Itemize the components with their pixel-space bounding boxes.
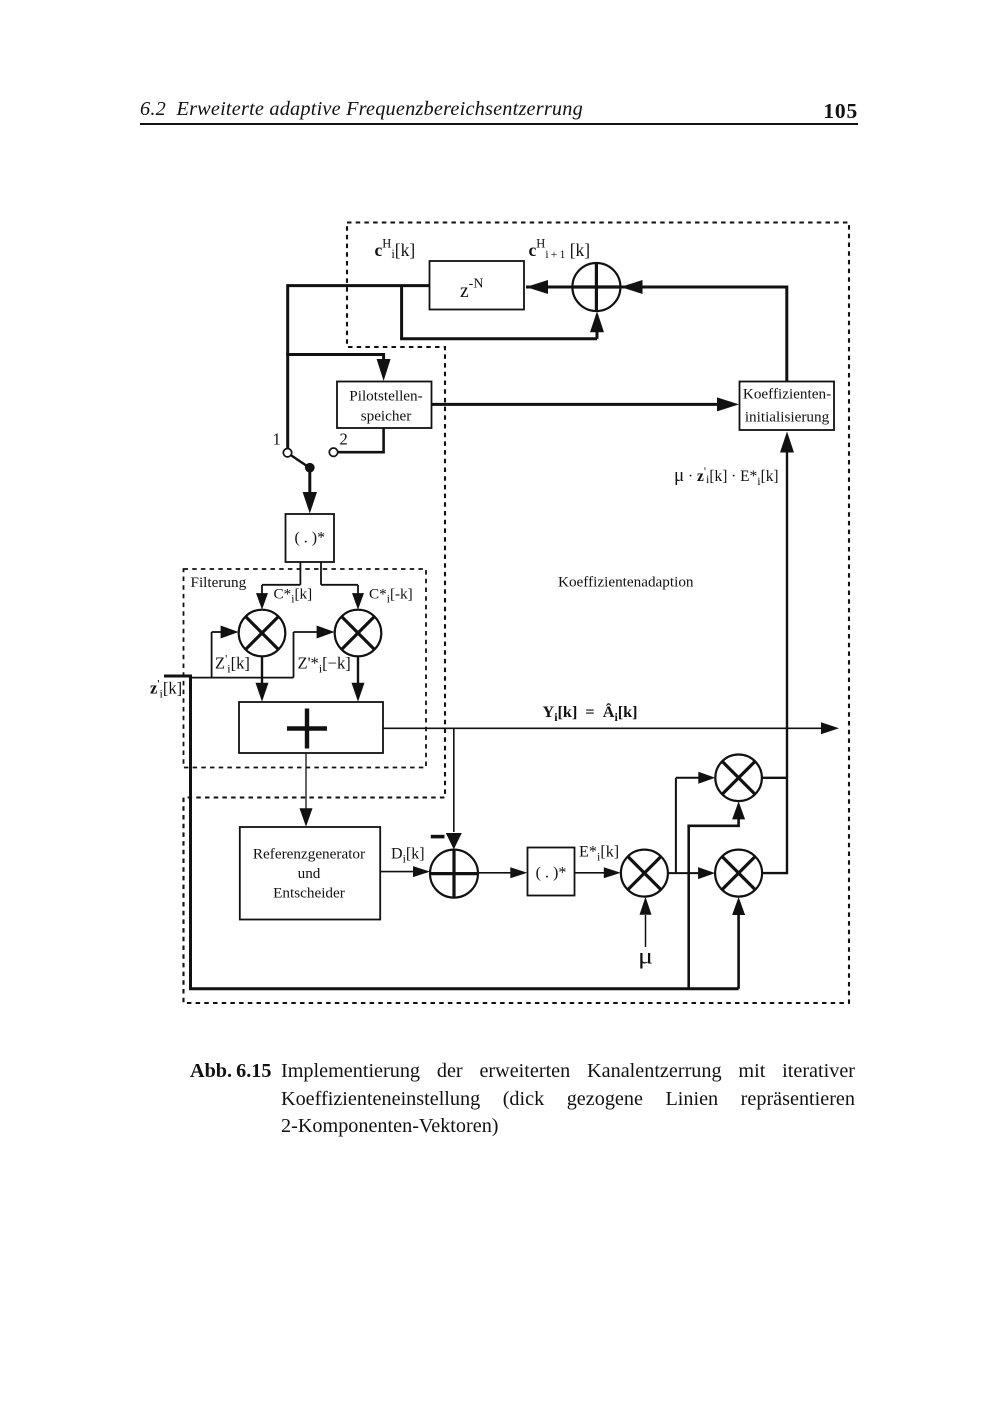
svg-text:Pilotstellen-: Pilotstellen- (349, 387, 422, 404)
caption (190, 1058, 271, 1086)
wire conjugate 2 to error multiplier (575, 872, 605, 874)
arrow into right filter multiplier (317, 626, 335, 639)
svg-text:Koeffizienten-: Koeffizienten- (743, 386, 831, 403)
arrow into Pilotstellenspeicher top (377, 359, 391, 381)
wire z'i[k] input stub, left vertical and bottom bus (thick vector line) (164, 675, 739, 989)
plus sign in summation block (287, 709, 327, 749)
header rule (140, 123, 858, 125)
wire feedback tap to adder bottom (400, 286, 597, 339)
arrow into conjugate 2 left (510, 867, 527, 878)
arrow into subtractor left (413, 866, 430, 877)
wire c(i+1) adder to z^-N and down from init box top (526, 286, 787, 382)
wire branch down to subtractor (453, 728, 455, 832)
wire riser to upper right multiplier bottom (687, 819, 738, 989)
minus sign of subtractor (431, 835, 445, 839)
svg-text:Filterung: Filterung (191, 574, 247, 591)
switch lever (291, 455, 307, 466)
svg-text:cHi[k]: cHi[k] (375, 237, 416, 262)
svg-text:( . )*: ( . )* (536, 865, 567, 882)
arrow into lower right multiplier bottom (732, 897, 745, 915)
svg-text:C*i[-k]: C*i[-k] (369, 586, 413, 606)
svg-text:Entscheider: Entscheider (273, 885, 345, 902)
arrow into summation left (256, 683, 269, 702)
svg-text:2: 2 (340, 430, 348, 449)
multiplier error x mu (621, 850, 668, 897)
svg-text:μ · z'i[k] · E*i[k]: μ · z'i[k] · E*i[k] (674, 464, 779, 488)
svg-text:cHi + 1 [k]: cHi + 1 [k] (529, 237, 591, 262)
block summation (239, 702, 383, 753)
arrow into subtractor top (446, 833, 462, 849)
wire switch contact 2 to Pilotstellenspeicher bottom (338, 428, 384, 454)
svg-text:speicher: speicher (361, 408, 412, 425)
arrow into Koeffizienteninitialisierung left (717, 397, 739, 411)
switch contact 1 (283, 449, 291, 457)
arrow into adder U1 (621, 280, 643, 294)
svg-text:C*i[k]: C*i[k] (274, 586, 313, 606)
wire subtractor to conjugate 2 (478, 872, 512, 874)
block Pilotstellenspeicher (337, 382, 432, 429)
arrow into error multiplier left (604, 867, 621, 878)
arrow into conjugate block top (303, 492, 317, 514)
wire conjugate outputs C*i[k] and C*i[-k] (262, 562, 358, 595)
svg-text:( . )*: ( . )* (294, 530, 325, 547)
block Koeffizienteninitialisierung (740, 382, 835, 431)
svg-text:E*i[k]: E*i[k] (579, 843, 619, 864)
svg-text:μ: μ (638, 944, 653, 969)
wire thin branch feeding filter multipliers (189, 632, 318, 678)
arrow into init box bottom (780, 432, 794, 453)
wire right multiplier outputs joined rising to init box bottom (762, 452, 787, 874)
multiplier right filter (335, 610, 382, 657)
block conjugate 1 (286, 514, 335, 562)
svg-text:z'i[k]: z'i[k] (150, 677, 182, 701)
svg-text:Z'*i[−k]: Z'*i[−k] (298, 654, 351, 676)
arrow into lower right multiplier left (698, 867, 715, 879)
dashed region Filterung (184, 569, 427, 768)
arrow into upper right multiplier bottom (732, 801, 745, 819)
arrow mu up (640, 897, 652, 915)
subtractor circle (430, 850, 478, 898)
wire c(i) z^-N output to switch contact 1 (288, 284, 430, 448)
arrow into left filter multiplier (221, 626, 239, 639)
arrow into Referenzgenerator top (300, 808, 313, 827)
multiplier upper right (715, 755, 762, 802)
svg-text:Yi[k] = Âi[k]: Yi[k] = Âi[k] (543, 702, 638, 724)
svg-text:1: 1 (273, 430, 281, 449)
wire Yi[k] output line (383, 727, 822, 729)
switch contact 2 (329, 448, 337, 456)
arrow Yi[k] end (821, 722, 839, 734)
arrow into adder bottom (590, 311, 604, 332)
arrow into right filter multiplier top (352, 593, 364, 610)
page header (140, 99, 858, 119)
wire Referenzgenerator to subtractor (380, 871, 414, 873)
svg-text:Z'i[k]: Z'i[k] (215, 652, 250, 676)
wire error multiplier output to lower right multiplier with branch up (668, 778, 699, 873)
wire mu into error multiplier (645, 915, 647, 947)
arrow into z^-N (526, 280, 548, 294)
multiplier lower right (715, 850, 762, 897)
adder U1 top (572, 263, 620, 311)
arrow into summation right (352, 683, 365, 702)
dashed region Koeffizientenadaption (184, 223, 850, 1004)
multiplier left filter (239, 610, 286, 657)
switch pole dot (305, 463, 315, 473)
wire multiplier outputs into summation block (262, 656, 358, 684)
svg-text:Referenzgenerator: Referenzgenerator (253, 846, 365, 863)
svg-text:und: und (298, 865, 321, 882)
block z^-N (430, 261, 525, 310)
arrow into upper right multiplier left (698, 772, 715, 784)
wire switch pole to conjugate block (308, 472, 311, 493)
svg-text:Di[k]: Di[k] (391, 846, 425, 866)
arrow into left filter multiplier top (256, 593, 268, 610)
wire summation to Referenzgenerator (305, 753, 307, 809)
svg-text:Koeffizientenadaption: Koeffizientenadaption (558, 574, 694, 591)
wire branch to Pilotstellenspeicher (286, 353, 383, 360)
block conjugate 2 (528, 848, 575, 896)
svg-text:initialisierung: initialisierung (745, 408, 830, 425)
wire Pilotstellenspeicher to Koeffizienteninitialisierung (432, 403, 722, 406)
wire riser to lower right multiplier bottom (737, 915, 740, 989)
block Referenzgenerator und Entscheider (240, 827, 380, 920)
